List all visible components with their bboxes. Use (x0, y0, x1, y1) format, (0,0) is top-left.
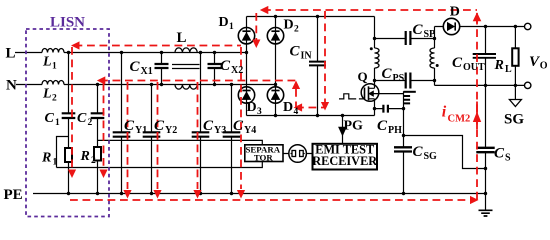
svg-text:1: 1 (52, 62, 57, 72)
svg-text:N: N (6, 78, 17, 94)
svg-text:1: 1 (55, 118, 60, 128)
wire bridge left column (246, 17, 248, 116)
common-mode choke L bottom winding (175, 85, 197, 90)
svg-text:CM2: CM2 (448, 113, 471, 124)
wire DC top bus (247, 16, 375, 18)
capacitor CSP (375, 31, 435, 45)
capacitor C1 (62, 53, 76, 149)
ground SG triangle (509, 85, 521, 106)
wire L rail (15, 52, 247, 54)
heatsink comb (404, 91, 416, 108)
svg-text:D: D (283, 100, 293, 115)
wire heatsink node to CS (404, 136, 486, 169)
svg-text:PS: PS (393, 73, 405, 84)
capacitor CPH (375, 105, 404, 113)
svg-text:D: D (284, 18, 294, 33)
capacitor CY1 (113, 53, 131, 194)
svg-text:Y3: Y3 (214, 125, 226, 136)
svg-text:2: 2 (294, 25, 299, 35)
wire red C2 branch (103, 83, 105, 171)
red arrowheads (68, 6, 481, 204)
svg-text:L: L (505, 64, 512, 75)
transistor Q mosfet (361, 84, 403, 116)
svg-text:R: R (41, 151, 51, 166)
diode D2 (267, 28, 283, 44)
svg-text:C: C (382, 66, 393, 82)
wire red CY1 branch (127, 82, 129, 189)
svg-text:L: L (42, 55, 52, 70)
wire red PG riser (296, 89, 324, 108)
wire red CIN drop (324, 11, 326, 104)
svg-text:L: L (42, 87, 52, 102)
svg-text:R: R (80, 149, 90, 164)
inductor L2 (42, 81, 64, 85)
svg-text:C: C (494, 146, 505, 162)
svg-text:OUT: OUT (463, 62, 485, 73)
transformer secondary winding (430, 27, 439, 86)
wire heatsink node down (403, 109, 405, 148)
svg-text:Y4: Y4 (244, 125, 256, 136)
svg-text:S: S (505, 153, 511, 164)
svg-text:D: D (247, 100, 257, 115)
diode D1 (238, 28, 254, 44)
svg-text:O: O (540, 61, 548, 72)
wire red CY3 branch (197, 82, 199, 189)
common-mode choke L core (172, 65, 200, 69)
wire red ground return line (70, 199, 468, 201)
svg-text:i: i (442, 104, 447, 121)
svg-text:L: L (6, 46, 16, 62)
svg-text:PG: PG (344, 119, 364, 134)
svg-text:C: C (377, 118, 388, 134)
wire red CM top line (263, 9, 477, 11)
capacitor CS (476, 85, 494, 193)
capacitor CX2 (208, 53, 222, 85)
svg-text:4: 4 (294, 107, 299, 117)
common-mode choke L top winding (175, 48, 197, 53)
svg-text:L: L (177, 30, 187, 46)
svg-text:Q: Q (358, 69, 368, 84)
resistor R2 (94, 147, 101, 194)
wire tap line B to separator (57, 162, 263, 168)
svg-text:LISN: LISN (50, 15, 85, 31)
capacitor COUT (473, 27, 496, 86)
resistor R1 (65, 148, 72, 194)
connector symbol (283, 145, 313, 163)
wire DC bottom bus (247, 115, 375, 117)
wire PE rail (33, 193, 486, 195)
svg-text:C: C (233, 118, 244, 134)
wire red bridge branch (240, 47, 242, 189)
capacitor CY4 (223, 85, 241, 194)
diode D output (443, 18, 459, 34)
svg-text:Y2: Y2 (165, 125, 177, 136)
svg-text:C: C (130, 59, 141, 75)
svg-text:RECEIVER: RECEIVER (312, 154, 377, 168)
wire red C1 branch (71, 47, 73, 168)
resistor RL (512, 27, 518, 86)
wire red L-rail line (75, 45, 242, 47)
wire red iCM2 riser (476, 13, 478, 200)
box SEPARATOR (245, 145, 283, 162)
wire N rail (16, 84, 276, 86)
svg-text:C: C (124, 118, 135, 134)
svg-text:C: C (220, 58, 231, 74)
svg-text:2: 2 (91, 156, 96, 166)
diode D4 (267, 87, 283, 103)
wire red N-line path (100, 80, 296, 82)
svg-text:2: 2 (88, 118, 93, 128)
svg-text:C: C (203, 118, 214, 134)
wire bridge right column (275, 17, 277, 116)
svg-text:3: 3 (257, 107, 262, 117)
svg-text:PH: PH (388, 125, 402, 136)
svg-text:IN: IN (301, 51, 313, 62)
capacitor CY2 (143, 85, 161, 194)
gate drive pulse symbol (339, 94, 365, 99)
svg-text:C: C (290, 44, 301, 60)
wire secondary top to output (435, 26, 525, 28)
capacitor CIN (309, 17, 326, 116)
svg-text:X2: X2 (231, 65, 243, 76)
transformer primary winding (370, 17, 379, 89)
svg-text:1: 1 (53, 158, 58, 168)
svg-text:SG: SG (504, 112, 524, 128)
svg-text:SP: SP (424, 29, 436, 40)
wire R1 bracket (57, 137, 69, 168)
inductor L1 (42, 49, 64, 53)
box EMI TEST RECEIVER (313, 144, 378, 170)
svg-text:C: C (452, 55, 463, 71)
svg-text:D: D (450, 5, 460, 20)
svg-text:1: 1 (229, 22, 234, 32)
svg-text:C: C (77, 111, 87, 126)
capacitor CSG (394, 147, 412, 193)
svg-text:C: C (45, 111, 55, 126)
svg-text:X1: X1 (141, 66, 153, 77)
earth ground symbol (479, 194, 493, 217)
capacitor CX1 (155, 53, 169, 85)
svg-text:Y1: Y1 (135, 125, 147, 136)
svg-text:D: D (219, 15, 229, 30)
svg-text:R: R (494, 58, 504, 73)
diode D3 (238, 87, 254, 103)
capacitor CPS (375, 73, 435, 89)
capacitor C2 (91, 85, 105, 148)
capacitor CY3 (192, 53, 210, 194)
wire output bottom line (435, 84, 525, 86)
terminal VO plus (525, 23, 531, 29)
wire tap line A to separator (98, 140, 263, 144)
svg-text:C: C (154, 118, 165, 134)
svg-text:C: C (413, 22, 424, 38)
svg-text:C: C (413, 144, 424, 160)
svg-text:PE: PE (4, 187, 23, 203)
wire red arrow into bridge top (255, 13, 257, 40)
svg-text:SG: SG (424, 151, 438, 162)
arrow PG ground (339, 116, 346, 144)
LISN boundary box (26, 29, 109, 217)
wire red CY2 branch (157, 82, 159, 189)
svg-text:TOR: TOR (254, 152, 274, 162)
svg-text:2: 2 (52, 94, 57, 104)
terminal VO minus (525, 82, 531, 88)
